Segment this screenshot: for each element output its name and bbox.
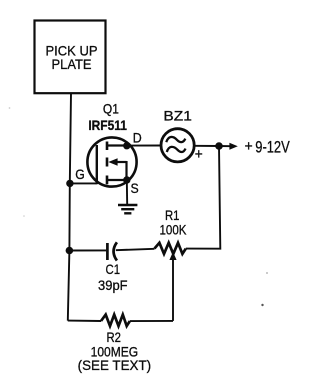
transistor Q1 channel segment (source) bbox=[106, 176, 109, 185]
junction: drain node bbox=[123, 142, 130, 149]
svg-text:D: D bbox=[133, 129, 142, 145]
ground bbox=[118, 205, 137, 213]
pick-up plate label "PLATE" bbox=[52, 56, 92, 72]
svg-text:PLATE: PLATE bbox=[52, 56, 92, 72]
pin label G bbox=[75, 166, 85, 182]
supply polarity + bbox=[245, 138, 253, 155]
value label 100K bbox=[160, 221, 188, 237]
svg-text:IRF511: IRF511 bbox=[88, 117, 127, 133]
wire: gate node to gate bar bbox=[70, 182, 97, 184]
junction: supply node bbox=[215, 142, 223, 150]
wire: left rail to C1 bbox=[69, 249, 106, 251]
transistor Q1 body circle bbox=[87, 137, 136, 186]
buzzer polarity label + bbox=[195, 147, 203, 163]
capacitor C1 right plate (curved) bbox=[114, 242, 117, 260]
wire: drain node to buzzer bbox=[127, 145, 161, 147]
junction: gate node G bbox=[66, 180, 73, 187]
value label IRF511 bbox=[88, 117, 127, 133]
transistor Q1 channel segment (drain) bbox=[106, 142, 109, 151]
pin label S bbox=[131, 180, 139, 196]
svg-text:+: + bbox=[245, 138, 253, 155]
svg-text:(SEE TEXT): (SEE TEXT) bbox=[78, 357, 152, 373]
reference designator R2 bbox=[106, 329, 121, 345]
buzzer BZ1 lower sine bbox=[167, 147, 186, 152]
svg-text:C1: C1 bbox=[106, 261, 121, 277]
buzzer BZ1 upper sine bbox=[166, 137, 185, 142]
reference designator R1 bbox=[165, 207, 180, 223]
wire: C1 to R1 bbox=[116, 249, 155, 250]
pick-up plate electrode box bbox=[35, 21, 106, 94]
transistor Q1 body arrow bbox=[108, 158, 126, 180]
buzzer BZ1 circle bbox=[161, 129, 194, 162]
transistor Q1 gate bar bbox=[96, 145, 98, 184]
svg-text:S: S bbox=[131, 180, 139, 196]
wire: buzzer to supply junction bbox=[194, 145, 219, 147]
pick-up plate label "PICK UP" bbox=[46, 43, 98, 59]
wire: R2 to wiper riser bbox=[130, 320, 173, 322]
net label 9-12V bbox=[255, 137, 290, 156]
pin label D bbox=[133, 129, 142, 145]
value label 39pF bbox=[98, 277, 128, 293]
resistor R1 zigzag bbox=[155, 243, 186, 254]
reference designator Q1 bbox=[103, 100, 119, 116]
svg-text:G: G bbox=[75, 166, 85, 182]
junction: source node bbox=[123, 176, 130, 183]
svg-text:100K: 100K bbox=[160, 221, 188, 237]
wire: supply junction down to R1 bbox=[186, 146, 221, 249]
junction: C1 node on left rail bbox=[66, 247, 74, 255]
transistor Q1 source lead bbox=[107, 179, 127, 181]
note label (SEE TEXT) bbox=[78, 357, 152, 373]
svg-text:Q1: Q1 bbox=[103, 100, 119, 116]
transistor Q1 channel segment (body) bbox=[106, 158, 109, 167]
svg-text:9-12V: 9-12V bbox=[255, 137, 290, 156]
capacitor C1 left plate bbox=[106, 243, 109, 260]
resistor R2 zigzag bbox=[101, 315, 130, 326]
svg-text:+: + bbox=[195, 147, 203, 163]
wire: plate down to gate node and on to bottom-left corner bbox=[68, 93, 71, 320]
scan speckles (noise) bbox=[9, 107, 268, 306]
R1 wiper arrow bbox=[169, 252, 176, 321]
reference designator BZ1 bbox=[163, 107, 192, 123]
transistor Q1 drain lead bbox=[107, 144, 127, 146]
wire: bottom-left corner to R2 bbox=[68, 320, 101, 322]
supply arrow bbox=[219, 143, 238, 150]
wire: source to ground bbox=[126, 180, 128, 205]
value label 100MEG bbox=[91, 344, 139, 360]
reference designator C1 bbox=[106, 261, 121, 277]
svg-text:BZ1: BZ1 bbox=[163, 107, 192, 123]
svg-text:39pF: 39pF bbox=[98, 277, 128, 293]
